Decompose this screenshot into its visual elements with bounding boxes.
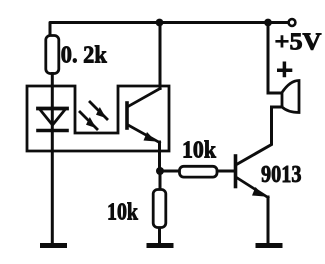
light arrow 2 <box>80 112 97 129</box>
phototransistor Q1 collector <box>128 89 160 107</box>
buzzer BZ1 body <box>282 81 299 113</box>
LED D1 cathode bar <box>38 129 67 133</box>
wire rail to phototransistor collector <box>159 23 162 89</box>
resistor R2 10k body (horizontal) <box>180 166 218 177</box>
node A (rail / collector drop junction) <box>156 19 164 27</box>
wire R3 to ground <box>158 229 161 243</box>
wire emitter down to node <box>158 142 161 171</box>
transistor Q2 base bar <box>234 156 238 187</box>
ground (left) <box>40 243 67 248</box>
wire Q2 emitter to ground <box>267 197 270 243</box>
wire node down to R3 <box>159 175 162 189</box>
light arrow 1 <box>90 102 107 119</box>
buzzer polarity plus <box>277 62 292 78</box>
transistor Q2 collector <box>237 108 272 165</box>
phototransistor Q1 base bar <box>125 103 129 128</box>
transistor Q2 emitter with arrow <box>237 178 269 198</box>
LED D1 triangle <box>40 109 66 125</box>
terminal +5V open circle <box>289 19 296 26</box>
ground (middle) <box>147 243 174 248</box>
optocoupler U1 box with slot <box>27 86 169 151</box>
resistor R3 10k body (vertical) <box>153 190 166 228</box>
svg-text:0. 2k: 0. 2k <box>61 42 107 69</box>
node B (rail / buzzer junction) <box>264 19 272 27</box>
wire top rail <box>50 23 288 37</box>
wire R2 to Q2 base <box>219 170 235 173</box>
svg-text:+5V: +5V <box>275 29 322 56</box>
wire R1 bottom to LED and ground <box>51 74 54 243</box>
resistor R1 0.2k body <box>46 36 59 74</box>
svg-text:10k: 10k <box>182 137 216 164</box>
svg-text:9013: 9013 <box>261 161 302 188</box>
wire buzzer top lead <box>268 23 282 94</box>
ground (right) <box>256 243 283 248</box>
LED D1 anode bar <box>38 107 67 111</box>
wire node to R2 <box>160 170 178 173</box>
node C (emitter / divider junction) <box>156 167 164 175</box>
wire buzzer bottom lead <box>272 106 283 109</box>
phototransistor Q1 emitter with arrow <box>128 125 160 143</box>
svg-text:10k: 10k <box>107 199 138 226</box>
